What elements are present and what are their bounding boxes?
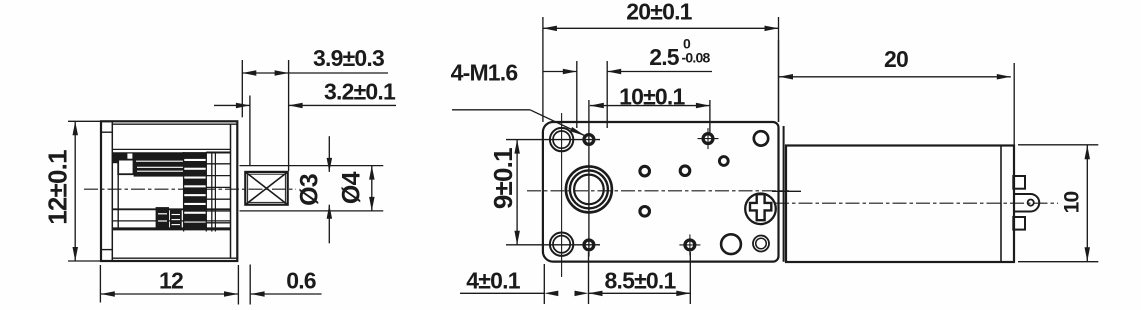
svg-text:4-M1.6: 4-M1.6 [451, 60, 518, 86]
svg-text:12±0.1: 12±0.1 [43, 150, 73, 225]
svg-text:10: 10 [1061, 192, 1084, 214]
svg-text:12: 12 [159, 267, 183, 293]
svg-text:3.9±0.3: 3.9±0.3 [313, 45, 384, 71]
svg-text:Ø3: Ø3 [296, 174, 324, 206]
svg-text:20: 20 [884, 46, 908, 72]
svg-text:4±0.1: 4±0.1 [466, 267, 520, 293]
svg-text:Ø4: Ø4 [338, 171, 366, 204]
svg-text:20±0.1: 20±0.1 [626, 0, 692, 25]
svg-text:8.5±0.1: 8.5±0.1 [605, 267, 677, 293]
svg-text:0.6: 0.6 [286, 267, 316, 293]
svg-text:9±0.1: 9±0.1 [488, 148, 518, 209]
svg-text:10±0.1: 10±0.1 [619, 84, 685, 110]
svg-text:2.5: 2.5 [649, 44, 680, 70]
svg-text:3.2±0.1: 3.2±0.1 [324, 79, 396, 105]
svg-text:-0.08: -0.08 [682, 50, 711, 66]
